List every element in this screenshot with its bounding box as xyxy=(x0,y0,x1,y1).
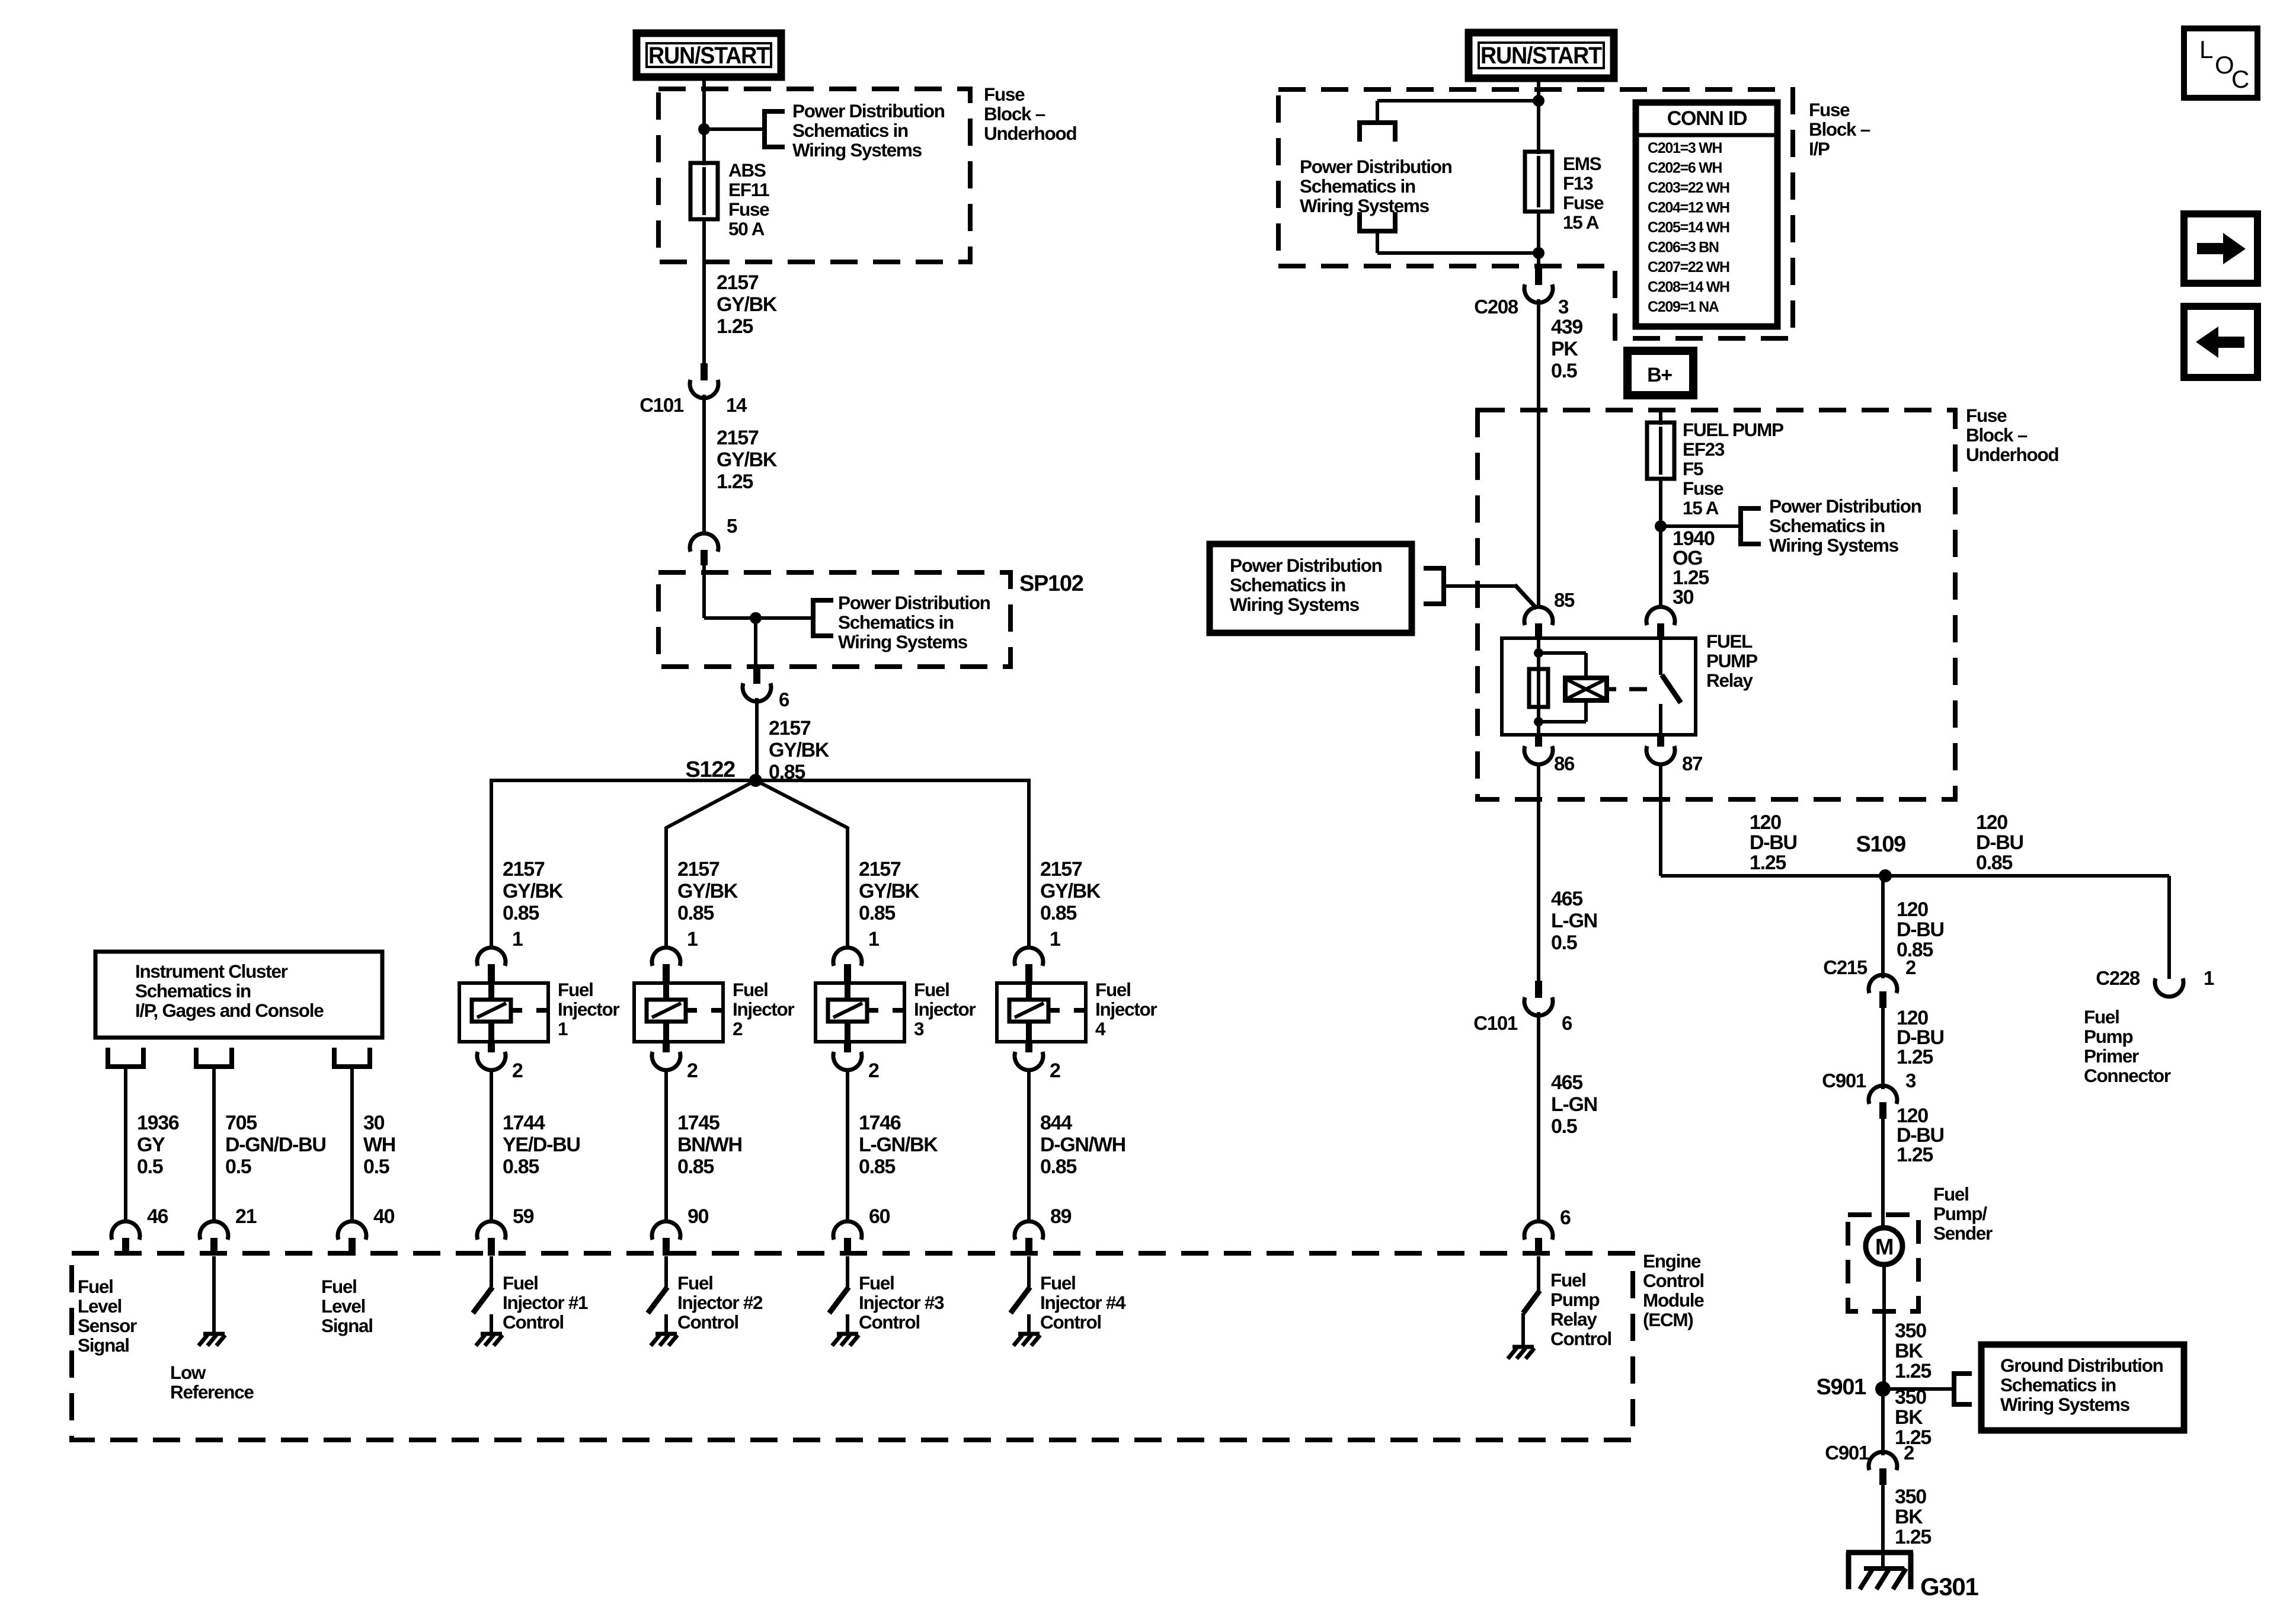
svg-text:1.25: 1.25 xyxy=(1897,1046,1933,1068)
svg-text:0.5: 0.5 xyxy=(1551,932,1577,954)
svg-text:59: 59 xyxy=(513,1205,534,1228)
cluster exit bracket x=212 xyxy=(105,1064,146,1069)
svg-text:86: 86 xyxy=(1554,753,1575,774)
svg-text:L-GN: L-GN xyxy=(1551,1093,1597,1116)
svg-text:Fuel: Fuel xyxy=(1550,1269,1586,1291)
svg-text:D-BU: D-BU xyxy=(1897,918,1944,941)
svg-text:G301: G301 xyxy=(1920,1573,1978,1601)
wire cluster to ECM x=212 xyxy=(124,1067,127,1223)
wire S122 distribution bus xyxy=(491,779,1029,782)
node junction to power distribution ref xyxy=(698,123,710,135)
svg-text:Fuel: Fuel xyxy=(503,1272,538,1294)
svg-text:D-GN/D-BU: D-GN/D-BU xyxy=(225,1134,326,1156)
ground symbol fuel pump relay driver xyxy=(1512,1345,1534,1349)
ECM driver switch fuel injector #4 xyxy=(1027,1256,1031,1287)
svg-text:30: 30 xyxy=(1673,586,1694,609)
node junction to power dist ref (underhood) xyxy=(1655,520,1667,532)
svg-text:Fuse: Fuse xyxy=(984,84,1025,105)
svg-text:C208=14 WH: C208=14 WH xyxy=(1648,279,1729,296)
cluster exit bracket x=361 xyxy=(194,1064,234,1069)
svg-text:Fuse: Fuse xyxy=(1809,99,1850,120)
wire branch to power dist reference (I/P) xyxy=(1377,99,1539,103)
svg-text:Control: Control xyxy=(1040,1311,1101,1333)
svg-text:BK: BK xyxy=(1895,1340,1923,1362)
ground symbol injector #4 driver xyxy=(1018,1332,1040,1336)
svg-text:1: 1 xyxy=(2204,967,2214,989)
ECM driver switch fuel injector #2 xyxy=(664,1256,668,1287)
svg-text:2: 2 xyxy=(512,1060,523,1082)
wire S901 to C901-2 xyxy=(1881,1389,1885,1455)
svg-text:GY: GY xyxy=(137,1134,165,1156)
svg-text:120: 120 xyxy=(1976,811,2007,834)
svg-text:GY/BK: GY/BK xyxy=(717,449,778,471)
svg-text:2: 2 xyxy=(868,1060,879,1082)
svg-text:Injector #2: Injector #2 xyxy=(677,1292,763,1313)
svg-text:0.85: 0.85 xyxy=(1040,902,1076,924)
svg-text:6: 6 xyxy=(1560,1206,1571,1229)
svg-text:GY/BK: GY/BK xyxy=(769,739,830,761)
ECM driver switch fuel injector #3 xyxy=(846,1256,849,1287)
svg-text:120: 120 xyxy=(1750,811,1781,834)
svg-text:Signal: Signal xyxy=(78,1334,129,1356)
relay pin 30 connector xyxy=(1646,607,1675,625)
svg-text:0.85: 0.85 xyxy=(859,902,895,924)
fuel injector 1 coil xyxy=(472,1000,511,1022)
relay pin 86 connector xyxy=(1535,735,1542,747)
fuel injector 2 coil xyxy=(647,1000,686,1022)
svg-text:Schematics in: Schematics in xyxy=(792,120,908,141)
svg-text:1744: 1744 xyxy=(503,1112,545,1134)
svg-text:Module: Module xyxy=(1643,1289,1704,1311)
wire cluster to ECM x=594 xyxy=(350,1067,354,1223)
wire cluster to ECM x=361 xyxy=(212,1067,216,1223)
svg-text:Wiring Systems: Wiring Systems xyxy=(2000,1394,2130,1415)
svg-text:0.5: 0.5 xyxy=(363,1156,389,1178)
svg-text:Control: Control xyxy=(677,1311,738,1333)
svg-text:Control: Control xyxy=(859,1311,920,1333)
svg-text:L-GN/BK: L-GN/BK xyxy=(859,1134,938,1156)
svg-text:Fuse: Fuse xyxy=(1683,478,1723,499)
svg-text:Fuel: Fuel xyxy=(914,979,949,1000)
relay switch pin 30 to 87 xyxy=(1659,638,1662,675)
wire injector 1 to ECM xyxy=(490,1069,493,1223)
connector C101 pin 6 xyxy=(1535,981,1542,998)
wire fuse EMS to C208 xyxy=(1537,212,1540,268)
fuel pump relay box xyxy=(1502,638,1696,735)
connector C228 pin 1 xyxy=(2155,978,2183,997)
svg-text:Power Distribution: Power Distribution xyxy=(1230,555,1382,576)
svg-text:40: 40 xyxy=(373,1205,395,1228)
wire branch to reference bracket xyxy=(704,127,765,131)
svg-text:87: 87 xyxy=(1682,753,1702,774)
CONN ID table box xyxy=(1636,103,1777,327)
svg-text:3: 3 xyxy=(1558,296,1569,318)
svg-text:2: 2 xyxy=(687,1060,698,1082)
svg-text:ABS: ABS xyxy=(728,159,766,181)
svg-text:Fuel: Fuel xyxy=(677,1272,713,1294)
wire C228 drop xyxy=(2167,876,2171,979)
svg-text:Level: Level xyxy=(78,1295,121,1317)
wire S109 down xyxy=(1881,876,1885,978)
svg-text:BK: BK xyxy=(1895,1506,1923,1528)
svg-text:465: 465 xyxy=(1551,1071,1582,1094)
svg-text:Engine: Engine xyxy=(1643,1250,1701,1272)
svg-text:1.25: 1.25 xyxy=(717,315,753,338)
svg-text:PUMP: PUMP xyxy=(1706,650,1757,671)
relay actuating dashes xyxy=(1607,687,1616,692)
svg-text:1.25: 1.25 xyxy=(1897,1144,1933,1166)
svg-text:Power Distribution: Power Distribution xyxy=(838,592,990,613)
svg-text:Wiring Systems: Wiring Systems xyxy=(838,631,968,652)
fuel injector 3 box xyxy=(816,983,904,1042)
wire C901-3 to fuel pump xyxy=(1881,1119,1885,1229)
svg-text:C228: C228 xyxy=(2096,967,2140,989)
wire RUN/START2 down to fuse EMS xyxy=(1537,78,1540,154)
wire motor to S901 xyxy=(1882,1265,1886,1389)
svg-text:Injector: Injector xyxy=(914,998,976,1020)
relay coil suppression resistor xyxy=(1529,669,1548,707)
svg-text:6: 6 xyxy=(779,689,789,710)
svg-text:FUEL: FUEL xyxy=(1706,630,1753,652)
svg-text:3: 3 xyxy=(914,1018,924,1039)
svg-text:2: 2 xyxy=(733,1018,743,1039)
wire injector 4 to ECM xyxy=(1027,1069,1031,1223)
ECM driver switch fuel pump relay xyxy=(1537,1256,1540,1291)
svg-text:S109: S109 xyxy=(1856,832,1905,857)
svg-text:C215: C215 xyxy=(1823,956,1868,978)
wire reference return to main xyxy=(1376,231,1379,253)
svg-text:GY/BK: GY/BK xyxy=(859,880,920,902)
fuse block underhood box (relay, dashed) xyxy=(1478,410,1955,799)
svg-text:Schematics in: Schematics in xyxy=(1300,175,1415,197)
fuse EMS F13 15 A xyxy=(1525,152,1552,212)
svg-text:Power Distribution: Power Distribution xyxy=(792,100,945,121)
svg-text:Signal: Signal xyxy=(321,1315,373,1336)
svg-text:GY/BK: GY/BK xyxy=(717,293,778,316)
svg-text:Fuse: Fuse xyxy=(1563,192,1604,213)
reference bracket (solid box) xyxy=(1441,566,1446,606)
svg-text:89: 89 xyxy=(1050,1205,1072,1228)
svg-text:RUN/START: RUN/START xyxy=(648,43,770,69)
svg-text:EF23: EF23 xyxy=(1683,438,1725,460)
svg-text:Fuel: Fuel xyxy=(1095,979,1131,1000)
svg-text:C206=3 BN: C206=3 BN xyxy=(1648,239,1719,256)
svg-text:FUEL PUMP: FUEL PUMP xyxy=(1683,419,1783,440)
svg-text:Relay: Relay xyxy=(1550,1308,1597,1330)
relay coil (solenoid with X) xyxy=(1565,678,1607,700)
off-page reference bracket (ground dist) xyxy=(1952,1371,1956,1407)
svg-text:(ECM): (ECM) xyxy=(1643,1309,1693,1330)
ECM driver switch fuel injector #1 xyxy=(490,1256,493,1287)
svg-text:Schematics in: Schematics in xyxy=(838,612,954,633)
svg-text:0.5: 0.5 xyxy=(1551,360,1577,382)
svg-text:Block –: Block – xyxy=(984,103,1045,124)
svg-text:Schematics in: Schematics in xyxy=(2000,1374,2116,1395)
LOC legend box xyxy=(2184,28,2257,98)
svg-text:Power Distribution: Power Distribution xyxy=(1300,156,1452,177)
svg-text:0.85: 0.85 xyxy=(1040,1156,1076,1178)
svg-text:1: 1 xyxy=(558,1018,568,1039)
engine control module box (dashed) xyxy=(72,1253,1633,1440)
svg-text:Fuel: Fuel xyxy=(1040,1272,1076,1294)
cluster exit bracket x=594 xyxy=(332,1064,372,1069)
svg-text:0.5: 0.5 xyxy=(137,1156,163,1178)
svg-text:Underhood: Underhood xyxy=(984,123,1076,144)
instrument cluster box xyxy=(95,952,382,1038)
svg-text:D-GN/WH: D-GN/WH xyxy=(1040,1134,1125,1156)
wire relay 86 to C101-6 xyxy=(1537,763,1540,981)
svg-text:C: C xyxy=(2231,65,2249,93)
svg-text:Wiring Systems: Wiring Systems xyxy=(1300,195,1430,216)
fuel injector 1 pin 2 connector xyxy=(488,1042,495,1052)
svg-text:0.85: 0.85 xyxy=(859,1156,895,1178)
svg-text:Reference: Reference xyxy=(170,1381,254,1403)
svg-text:15 A: 15 A xyxy=(1683,497,1719,518)
fuel pump/sender box (dashed) xyxy=(1848,1215,1918,1311)
svg-text:I/P, Gages and Console: I/P, Gages and Console xyxy=(135,1000,324,1021)
wire branch to reference bracket (underhood) xyxy=(1661,524,1741,528)
svg-text:350: 350 xyxy=(1895,1486,1926,1508)
svg-text:Level: Level xyxy=(321,1295,365,1317)
wire bus drop to injector 4 xyxy=(1027,779,1031,949)
svg-text:46: 46 xyxy=(147,1205,168,1228)
svg-text:O: O xyxy=(2215,51,2233,79)
svg-text:S122: S122 xyxy=(685,757,735,782)
ground G301 symbol xyxy=(1846,1550,1913,1555)
svg-text:Fuel: Fuel xyxy=(733,979,768,1000)
svg-text:BN/WH: BN/WH xyxy=(677,1134,742,1156)
svg-text:50 A: 50 A xyxy=(728,218,765,239)
svg-text:Sender: Sender xyxy=(1933,1222,1993,1244)
wire to reference bracket SP102 xyxy=(756,616,813,620)
connector C208 pin 3 xyxy=(1535,268,1542,285)
svg-text:14: 14 xyxy=(726,394,747,416)
off-page reference bracket (underhood) xyxy=(1738,506,1743,546)
wire diagonal to injector 3 xyxy=(756,780,848,828)
svg-text:2: 2 xyxy=(1905,956,1916,978)
svg-text:Control: Control xyxy=(1550,1328,1611,1349)
svg-text:WH: WH xyxy=(363,1134,395,1156)
svg-text:Control: Control xyxy=(503,1311,564,1333)
svg-text:21: 21 xyxy=(235,1205,257,1228)
wire injector 2 to ECM xyxy=(664,1069,668,1223)
svg-text:Fuse: Fuse xyxy=(1966,405,2007,426)
svg-text:350: 350 xyxy=(1895,1320,1926,1342)
fuel pump motor M xyxy=(1866,1228,1902,1265)
power tag B+ xyxy=(1627,351,1693,395)
svg-text:90: 90 xyxy=(687,1205,709,1228)
svg-text:Pump/: Pump/ xyxy=(1933,1203,1987,1224)
svg-text:1936: 1936 xyxy=(137,1112,179,1134)
svg-text:C901: C901 xyxy=(1825,1442,1869,1464)
svg-text:Schematics in: Schematics in xyxy=(1769,515,1885,536)
svg-text:Control: Control xyxy=(1643,1270,1704,1291)
wire diagonal to injector 2 xyxy=(666,780,756,828)
svg-text:Power Distribution: Power Distribution xyxy=(1769,495,1921,517)
svg-text:Wiring Systems: Wiring Systems xyxy=(792,139,922,161)
svg-text:C901: C901 xyxy=(1822,1070,1866,1092)
svg-text:0.5: 0.5 xyxy=(1551,1115,1577,1138)
ground symbol injector #1 driver xyxy=(481,1332,502,1336)
svg-text:F5: F5 xyxy=(1683,458,1703,479)
relay coil bottom wires xyxy=(1584,698,1588,722)
svg-text:Schematics in: Schematics in xyxy=(1230,574,1345,596)
wire low reference to ground xyxy=(212,1256,216,1332)
svg-text:C203=22 WH: C203=22 WH xyxy=(1648,180,1729,196)
svg-text:PK: PK xyxy=(1551,338,1578,360)
connector 6 out of SP102 xyxy=(753,667,760,684)
svg-text:2157: 2157 xyxy=(859,858,901,881)
svg-text:Sensor: Sensor xyxy=(78,1315,137,1336)
svg-text:C208: C208 xyxy=(1474,296,1518,318)
svg-text:M: M xyxy=(1875,1235,1893,1260)
off-page reference bracket (SP102) xyxy=(811,598,816,638)
reference bracket top (I/P) xyxy=(1357,120,1398,125)
svg-text:705: 705 xyxy=(225,1112,257,1134)
fuel injector 1 box xyxy=(459,983,548,1042)
ground symbol low reference xyxy=(203,1332,225,1336)
svg-text:0.85: 0.85 xyxy=(503,902,539,924)
ground symbol injector #2 driver xyxy=(655,1332,677,1336)
wire C208 to relay pin 85 xyxy=(1537,299,1540,609)
relay pin 87 connector xyxy=(1657,735,1664,747)
svg-text:C101: C101 xyxy=(1473,1012,1518,1034)
svg-text:6: 6 xyxy=(1562,1012,1572,1034)
svg-text:465: 465 xyxy=(1551,888,1582,910)
wire C101 to connector 5 xyxy=(702,395,706,534)
splice pack SP102 box (dashed) xyxy=(658,572,1011,667)
svg-text:Fuel: Fuel xyxy=(558,979,593,1000)
svg-text:120: 120 xyxy=(1897,898,1928,921)
fuel injector 3 pin 2 connector xyxy=(844,1042,851,1052)
svg-text:Fuel: Fuel xyxy=(859,1272,894,1294)
wire RUN/START to fuse ABS xyxy=(702,77,706,165)
fuse block underhood box (left, dashed) xyxy=(658,89,970,262)
svg-text:2157: 2157 xyxy=(677,858,720,881)
svg-text:Injector #3: Injector #3 xyxy=(859,1292,944,1313)
svg-text:4: 4 xyxy=(1095,1018,1106,1039)
wire relay 87 down to S109 bus xyxy=(1659,763,1662,876)
svg-text:EF11: EF11 xyxy=(728,179,769,200)
svg-text:Fuel: Fuel xyxy=(321,1276,357,1297)
wire C901-2 to G301 xyxy=(1881,1485,1885,1569)
svg-text:D-BU: D-BU xyxy=(1750,831,1797,854)
svg-text:2157: 2157 xyxy=(717,271,759,294)
wire SP102 down to connector 6 xyxy=(754,618,757,668)
svg-text:1: 1 xyxy=(512,928,523,950)
wire injector 3 to ECM xyxy=(846,1069,849,1223)
svg-text:3: 3 xyxy=(1905,1070,1916,1092)
svg-text:0.85: 0.85 xyxy=(677,902,714,924)
svg-text:L-GN: L-GN xyxy=(1551,910,1597,932)
svg-text:Fuse: Fuse xyxy=(728,199,769,220)
wire connector 6 to splice S122 xyxy=(755,698,759,780)
svg-text:2: 2 xyxy=(1050,1060,1060,1082)
arrow left box xyxy=(2184,306,2257,377)
svg-text:GY/BK: GY/BK xyxy=(677,880,738,902)
svg-text:1: 1 xyxy=(687,928,698,950)
svg-text:2157: 2157 xyxy=(1040,858,1082,881)
svg-text:Wiring Systems: Wiring Systems xyxy=(1230,594,1360,615)
connector 5 into SP102 xyxy=(690,533,718,552)
fuel injector 4 pin 2 connector xyxy=(1025,1042,1032,1052)
svg-text:1.25: 1.25 xyxy=(717,470,753,493)
svg-text:Injector: Injector xyxy=(558,998,619,1020)
svg-text:Block –: Block – xyxy=(1809,119,1870,140)
wire S109 bus xyxy=(1661,874,2169,878)
svg-text:C201=3 WH: C201=3 WH xyxy=(1648,140,1722,156)
svg-text:YE/D-BU: YE/D-BU xyxy=(503,1134,580,1156)
svg-text:CONN ID: CONN ID xyxy=(1667,107,1747,130)
svg-text:Low: Low xyxy=(170,1362,206,1383)
svg-text:350: 350 xyxy=(1895,1386,1926,1409)
power tag RUN/START (left) xyxy=(637,33,781,77)
svg-text:BK: BK xyxy=(1895,1406,1923,1429)
svg-text:Relay: Relay xyxy=(1706,670,1753,691)
node SP102 junction xyxy=(750,612,762,624)
svg-text:Pump: Pump xyxy=(2084,1026,2132,1047)
wire fuse EF23 to relay pin 30 xyxy=(1659,479,1662,609)
svg-text:1.25: 1.25 xyxy=(1895,1360,1931,1382)
svg-text:Injector #4: Injector #4 xyxy=(1040,1292,1126,1313)
svg-text:Connector: Connector xyxy=(2084,1065,2171,1086)
svg-text:Ground Distribution: Ground Distribution xyxy=(2000,1355,2163,1376)
svg-text:Primer: Primer xyxy=(2084,1045,2139,1067)
svg-text:Block –: Block – xyxy=(1966,424,2028,446)
svg-text:439: 439 xyxy=(1551,316,1582,338)
wire reference to relay pin 85 wire xyxy=(1446,584,1516,588)
wire inside SP102 xyxy=(702,564,706,618)
svg-text:Fuel: Fuel xyxy=(2084,1006,2119,1028)
svg-text:Fuel: Fuel xyxy=(1933,1183,1969,1205)
svg-text:1: 1 xyxy=(1050,928,1060,950)
node junction below fuse EMS xyxy=(1533,247,1544,259)
arrow right box xyxy=(2184,214,2257,283)
svg-text:I/P: I/P xyxy=(1809,138,1830,159)
wire fuse to C101 xyxy=(702,219,706,364)
svg-text:F13: F13 xyxy=(1563,172,1593,194)
svg-text:Underhood: Underhood xyxy=(1966,444,2058,465)
svg-text:C202=6 WH: C202=6 WH xyxy=(1648,160,1722,177)
svg-text:0.5: 0.5 xyxy=(225,1156,251,1178)
svg-text:Wiring Systems: Wiring Systems xyxy=(1769,534,1899,556)
svg-text:C205=14 WH: C205=14 WH xyxy=(1648,219,1729,236)
power tag RUN/START (right) xyxy=(1469,33,1614,78)
svg-text:Injector: Injector xyxy=(733,998,794,1020)
fuse FUEL PUMP EF23 F5 15 A xyxy=(1647,422,1674,479)
svg-text:1.25: 1.25 xyxy=(1750,852,1786,874)
svg-text:GY/BK: GY/BK xyxy=(1040,880,1101,902)
fuse block I/P box (dashed) xyxy=(1278,89,1793,338)
reference bracket bottom (I/P) xyxy=(1357,229,1398,233)
svg-text:GY/BK: GY/BK xyxy=(503,880,564,902)
svg-text:1746: 1746 xyxy=(859,1112,901,1134)
svg-text:S901: S901 xyxy=(1816,1375,1866,1400)
svg-text:2157: 2157 xyxy=(503,858,545,881)
svg-text:60: 60 xyxy=(869,1205,890,1228)
svg-text:2157: 2157 xyxy=(769,717,811,740)
svg-text:1745: 1745 xyxy=(677,1112,720,1134)
svg-text:Schematics in: Schematics in xyxy=(135,980,251,1001)
wire S901 branch to ground dist ref xyxy=(1883,1387,1952,1391)
svg-text:5: 5 xyxy=(727,515,737,537)
fuel injector 2 box xyxy=(634,983,723,1042)
svg-text:15 A: 15 A xyxy=(1563,212,1599,233)
svg-text:Instrument Cluster: Instrument Cluster xyxy=(135,961,288,982)
ground distribution reference box xyxy=(1981,1345,2184,1430)
svg-text:D-BU: D-BU xyxy=(1976,831,2023,854)
svg-text:Injector #1: Injector #1 xyxy=(503,1292,588,1313)
